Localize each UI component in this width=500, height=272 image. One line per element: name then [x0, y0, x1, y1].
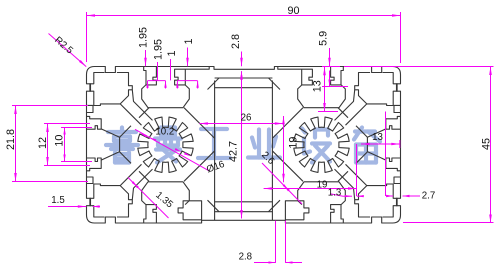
svg-text:19: 19: [288, 137, 300, 149]
svg-text:1: 1: [183, 38, 195, 44]
svg-text:1.5: 1.5: [51, 195, 64, 206]
svg-text:13: 13: [372, 132, 383, 143]
svg-text:42.7: 42.7: [228, 141, 240, 162]
svg-text:45: 45: [481, 138, 493, 150]
svg-text:1.95: 1.95: [153, 39, 165, 60]
svg-text:19: 19: [317, 180, 328, 191]
svg-text:2.7: 2.7: [422, 190, 435, 201]
svg-text:1.95: 1.95: [138, 27, 150, 48]
svg-text:13: 13: [312, 80, 324, 92]
svg-text:5.9: 5.9: [318, 31, 330, 46]
svg-text:1.3: 1.3: [328, 188, 341, 199]
svg-text:21.8: 21.8: [5, 129, 17, 150]
svg-text:1: 1: [166, 50, 178, 56]
svg-text:26: 26: [241, 113, 252, 124]
svg-text:12: 12: [37, 137, 49, 149]
svg-text:10.2: 10.2: [155, 126, 174, 137]
svg-text:90: 90: [287, 5, 299, 17]
svg-text:10: 10: [54, 135, 66, 147]
svg-text:2.8: 2.8: [239, 252, 252, 263]
svg-text:2.8: 2.8: [230, 34, 242, 49]
